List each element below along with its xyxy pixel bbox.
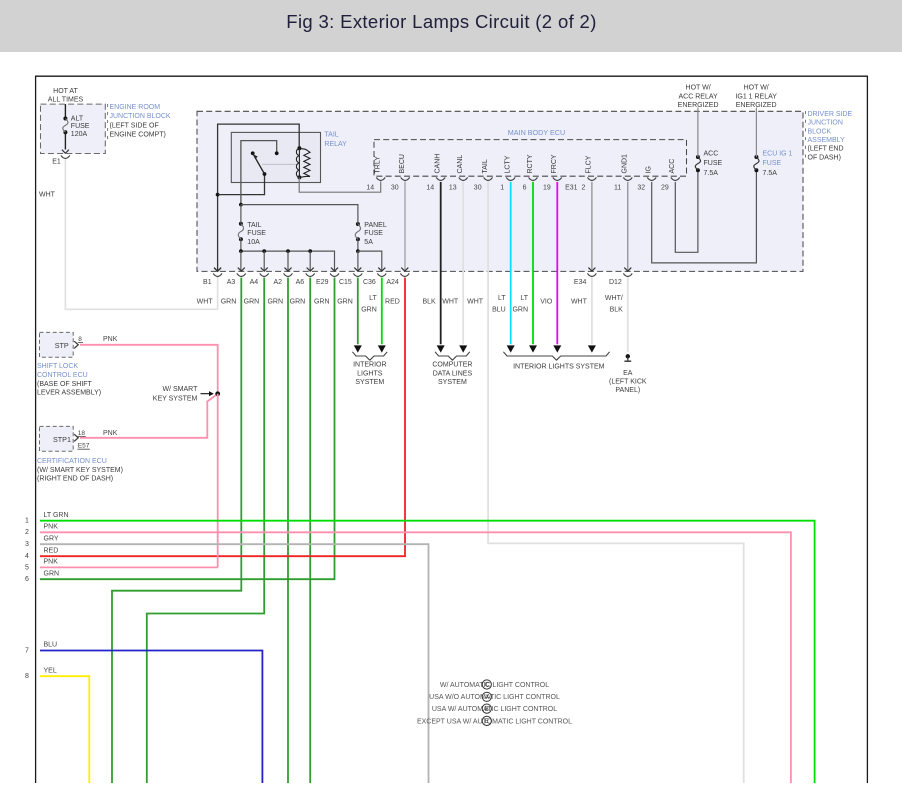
svg-text:HOT AT: HOT AT: [53, 88, 78, 95]
svg-text:C: C: [485, 682, 490, 689]
svg-text:GRN: GRN: [290, 298, 306, 305]
svg-text:BLK: BLK: [422, 298, 436, 305]
svg-text:7: 7: [25, 647, 29, 654]
svg-text:RCTY: RCTY: [527, 154, 534, 173]
svg-text:A24: A24: [386, 279, 399, 286]
svg-text:ENERGIZED: ENERGIZED: [678, 102, 719, 109]
svg-text:USA W/O AUTOMATIC LIGHT CONTRO: USA W/O AUTOMATIC LIGHT CONTROL: [429, 694, 560, 701]
svg-text:LCTY: LCTY: [505, 155, 512, 173]
svg-text:(BASE OF SHIFT: (BASE OF SHIFT: [37, 381, 93, 388]
svg-text:1: 1: [25, 518, 29, 525]
svg-text:8: 8: [78, 336, 82, 343]
svg-text:1: 1: [500, 184, 504, 191]
svg-text:W/ SMART: W/ SMART: [163, 386, 199, 393]
svg-text:GRN: GRN: [361, 306, 377, 313]
svg-text:ASSEMBLY: ASSEMBLY: [808, 137, 846, 144]
svg-text:LT: LT: [520, 295, 528, 302]
svg-text:W/ AUTOMATIC LIGHT CONTROL: W/ AUTOMATIC LIGHT CONTROL: [440, 682, 549, 689]
svg-text:LIGHTS: LIGHTS: [357, 370, 383, 377]
svg-text:MAIN BODY ECU: MAIN BODY ECU: [508, 128, 565, 137]
svg-text:3: 3: [25, 541, 29, 548]
svg-text:BLOCK: BLOCK: [808, 128, 832, 135]
svg-text:E31: E31: [565, 184, 578, 191]
svg-text:6: 6: [523, 184, 527, 191]
svg-text:2: 2: [581, 184, 585, 191]
svg-text:USA W/ AUTOMATIC LIGHT CONTROL: USA W/ AUTOMATIC LIGHT CONTROL: [432, 706, 557, 713]
svg-text:INTERIOR: INTERIOR: [353, 362, 386, 369]
svg-text:PNK: PNK: [103, 430, 118, 437]
svg-text:LT: LT: [369, 295, 377, 302]
svg-text:CONTROL ECU: CONTROL ECU: [37, 372, 88, 379]
svg-text:(LEFT KICK: (LEFT KICK: [609, 379, 647, 386]
svg-text:(LEFT END: (LEFT END: [808, 146, 844, 153]
svg-text:A4: A4: [250, 279, 259, 286]
svg-text:4: 4: [25, 553, 29, 560]
svg-text:GRN: GRN: [44, 570, 60, 577]
svg-text:LEVER ASSEMBLY): LEVER ASSEMBLY): [37, 390, 101, 397]
svg-text:CANH: CANH: [435, 154, 442, 174]
svg-text:TRLY: TRLY: [375, 156, 382, 174]
svg-text:STP1: STP1: [53, 435, 71, 444]
svg-text:ACC: ACC: [704, 150, 719, 157]
svg-text:CERTIFICATION ECU: CERTIFICATION ECU: [37, 458, 107, 465]
svg-text:FUSE: FUSE: [763, 160, 782, 167]
svg-text:RED: RED: [44, 547, 59, 554]
svg-text:IG: IG: [646, 166, 653, 173]
svg-text:GND1: GND1: [622, 154, 629, 174]
svg-text:WHT: WHT: [442, 298, 459, 305]
svg-text:TAIL: TAIL: [324, 131, 338, 138]
svg-text:SHIFT LOCK: SHIFT LOCK: [37, 363, 78, 370]
svg-text:14: 14: [366, 184, 374, 191]
svg-text:18: 18: [78, 430, 86, 437]
svg-text:GRY: GRY: [44, 535, 59, 542]
svg-text:FUSE: FUSE: [247, 230, 266, 237]
svg-text:E29: E29: [316, 279, 329, 286]
svg-text:JUNCTION BLOCK: JUNCTION BLOCK: [110, 113, 171, 120]
svg-text:HOT W/: HOT W/: [744, 85, 769, 92]
svg-text:C36: C36: [363, 279, 376, 286]
svg-text:WHT/: WHT/: [605, 295, 623, 302]
svg-text:EA: EA: [623, 370, 633, 377]
svg-text:INTERIOR LIGHTS SYSTEM: INTERIOR LIGHTS SYSTEM: [513, 363, 605, 370]
svg-text:SYSTEM: SYSTEM: [355, 379, 384, 386]
svg-text:ENGINE ROOM: ENGINE ROOM: [110, 104, 161, 111]
svg-text:6: 6: [25, 576, 29, 583]
svg-text:PNK: PNK: [44, 524, 59, 531]
svg-text:FRCY: FRCY: [551, 154, 558, 173]
svg-text:IG1 1 RELAY: IG1 1 RELAY: [735, 93, 777, 100]
svg-text:OF DASH): OF DASH): [808, 154, 841, 161]
svg-text:PANEL: PANEL: [364, 222, 387, 229]
svg-text:E1: E1: [52, 159, 61, 166]
svg-text:ALT: ALT: [71, 116, 84, 123]
svg-text:ENGINE COMPT): ENGINE COMPT): [110, 132, 166, 139]
svg-text:CANL: CANL: [457, 155, 464, 174]
svg-text:COMPUTER: COMPUTER: [432, 362, 472, 369]
svg-text:GRN: GRN: [337, 298, 353, 305]
svg-text:A2: A2: [273, 279, 282, 286]
svg-text:WHT: WHT: [197, 298, 214, 305]
svg-text:ACC: ACC: [669, 159, 676, 174]
svg-text:DRIVER SIDE: DRIVER SIDE: [808, 111, 853, 118]
svg-text:GRN: GRN: [221, 298, 237, 305]
svg-text:ALL TIMES: ALL TIMES: [48, 97, 84, 104]
svg-text:TAIL: TAIL: [482, 159, 489, 173]
svg-text:30: 30: [474, 184, 482, 191]
svg-text:32: 32: [637, 184, 645, 191]
svg-text:ECU IG 1: ECU IG 1: [763, 150, 793, 157]
svg-text:GRN: GRN: [314, 298, 330, 305]
svg-text:PNK: PNK: [103, 336, 118, 343]
svg-text:D12: D12: [609, 279, 622, 286]
svg-text:E: E: [485, 718, 489, 725]
svg-text:E57: E57: [78, 443, 90, 450]
svg-text:(RIGHT END OF DASH): (RIGHT END OF DASH): [37, 476, 113, 483]
svg-text:HOT W/: HOT W/: [686, 85, 711, 92]
svg-text:GRN: GRN: [244, 298, 260, 305]
svg-text:10A: 10A: [247, 239, 260, 246]
svg-text:BLU: BLU: [492, 306, 506, 313]
svg-text:GRN: GRN: [267, 298, 283, 305]
svg-text:KEY SYSTEM: KEY SYSTEM: [153, 396, 198, 403]
svg-text:B: B: [485, 706, 489, 713]
svg-text:29: 29: [661, 184, 669, 191]
svg-text:11: 11: [614, 184, 621, 191]
svg-text:13: 13: [449, 184, 457, 191]
svg-text:BLU: BLU: [44, 642, 58, 649]
svg-text:C15: C15: [339, 279, 352, 286]
svg-text:YEL: YEL: [44, 667, 57, 674]
svg-text:B1: B1: [203, 279, 212, 286]
svg-text:7.5A: 7.5A: [704, 170, 719, 177]
svg-text:WHT: WHT: [39, 192, 56, 199]
svg-text:FUSE: FUSE: [364, 230, 383, 237]
svg-text:BECU: BECU: [399, 154, 406, 173]
svg-text:5: 5: [25, 564, 29, 571]
svg-text:GRN: GRN: [512, 306, 528, 313]
svg-text:FLCY: FLCY: [586, 155, 593, 173]
svg-text:A6: A6: [296, 279, 305, 286]
svg-text:LT GRN: LT GRN: [44, 512, 69, 519]
svg-text:VIO: VIO: [540, 298, 553, 305]
svg-text:FUSE: FUSE: [704, 160, 723, 167]
svg-text:WHT: WHT: [467, 298, 484, 305]
svg-text:E34: E34: [574, 279, 587, 286]
svg-text:ACC RELAY: ACC RELAY: [679, 93, 718, 100]
svg-text:SYSTEM: SYSTEM: [438, 379, 467, 386]
svg-text:5A: 5A: [364, 239, 373, 246]
svg-text:BLK: BLK: [610, 306, 624, 313]
svg-text:RELAY: RELAY: [324, 141, 347, 148]
svg-text:30: 30: [391, 184, 399, 191]
svg-text:LT: LT: [498, 295, 506, 302]
svg-text:ENERGIZED: ENERGIZED: [736, 102, 777, 109]
svg-text:EXCEPT USA W/ AUTOMATIC LIGHT: EXCEPT USA W/ AUTOMATIC LIGHT CONTROL: [417, 718, 572, 725]
svg-text:A3: A3: [227, 279, 236, 286]
svg-text:PANEL): PANEL): [615, 387, 640, 394]
svg-text:STP: STP: [55, 341, 69, 350]
svg-text:19: 19: [543, 184, 551, 191]
svg-text:RED: RED: [385, 298, 400, 305]
svg-text:WHT: WHT: [571, 298, 588, 305]
svg-text:120A: 120A: [71, 131, 88, 138]
svg-text:(LEFT SIDE OF: (LEFT SIDE OF: [110, 122, 159, 129]
svg-text:PNK: PNK: [44, 559, 59, 566]
svg-text:DATA LINES: DATA LINES: [433, 370, 473, 377]
svg-text:TAIL: TAIL: [247, 222, 261, 229]
svg-text:2: 2: [25, 529, 29, 536]
svg-text:(W/ SMART KEY SYSTEM): (W/ SMART KEY SYSTEM): [37, 467, 123, 474]
svg-text:8: 8: [25, 673, 29, 680]
svg-text:JUNCTION: JUNCTION: [808, 120, 843, 127]
svg-text:14: 14: [426, 184, 434, 191]
svg-text:7.5A: 7.5A: [763, 170, 778, 177]
svg-text:FUSE: FUSE: [71, 123, 90, 130]
